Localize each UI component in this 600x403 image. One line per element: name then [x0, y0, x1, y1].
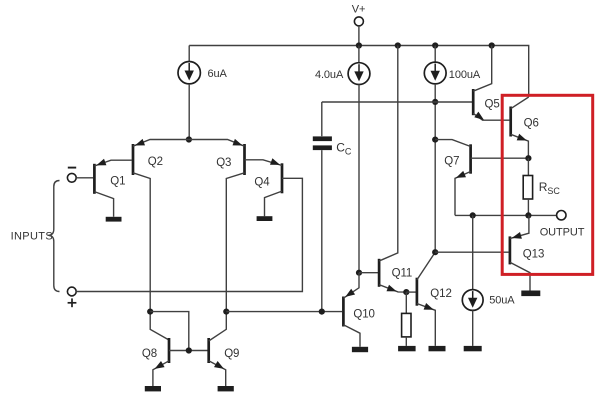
ground Q8 emitter: [145, 386, 161, 391]
junction output line / 50uA branch: [470, 212, 476, 218]
junction Cc tap on gain node: [319, 309, 325, 315]
junction rail / V+ stem: [356, 42, 362, 48]
svg-text:Q3: Q3: [216, 157, 231, 169]
junction rail / Q5 collector riser: [489, 42, 495, 48]
svg-text:Q10: Q10: [353, 308, 374, 320]
junction rail / Q11 collector riser: [395, 42, 401, 48]
wire V+ stem: [358, 26, 360, 46]
transistor Q11: [379, 46, 406, 293]
wire 6uA source to input tail node: [188, 84, 190, 140]
transistor Q4: [245, 158, 283, 216]
OUTPUT terminal: [557, 211, 566, 220]
wire 4.0uA source to node A: [358, 85, 360, 273]
current source I2 4.0uA: [348, 63, 370, 85]
wire Q11 emitter node to Q12 base: [406, 291, 416, 293]
wire Q8 collector node to mirror bases: [150, 312, 189, 351]
ground Q1 collector: [106, 217, 122, 222]
current source I1 6uA: [178, 61, 200, 83]
wire Q12 collector node to Q13 base: [435, 251, 508, 253]
svg-text:Q2: Q2: [148, 156, 163, 168]
red highlight box (output short-circuit protection): [502, 95, 593, 274]
wire output line to 50uA source: [472, 215, 474, 289]
wire rail to 4.0uA source: [358, 46, 360, 63]
wire V+ rail: [189, 46, 529, 98]
wire 100uA source to Q12 collector node: [434, 84, 436, 252]
V+ terminal: [352, 3, 366, 26]
junction node A (4.0uA / Q10 emitter / Q11 base): [356, 270, 362, 276]
wire Q5 base compensation line: [321, 102, 323, 136]
junction Q2/Q8 collector node: [147, 309, 153, 315]
transistor Q1: [94, 159, 131, 217]
junction output node (Rsc/Q13 emitter): [525, 212, 531, 218]
transistor Q7: [435, 140, 528, 216]
wire Q4 base to IN+: [76, 178, 302, 291]
svg-text:Q9: Q9: [224, 348, 239, 360]
svg-text:Q5: Q5: [485, 98, 500, 110]
ground 50uA: [464, 346, 482, 351]
svg-text:INPUTS: INPUTS: [11, 230, 53, 242]
svg-text:Q7: Q7: [444, 155, 459, 167]
svg-text:Q13: Q13: [523, 248, 544, 260]
junction Q7 collector tap: [432, 137, 438, 143]
wire node A to Q11 base: [359, 272, 378, 274]
transistor Q8: [153, 338, 208, 386]
wire resistor R1 to ground: [405, 337, 407, 346]
svg-text:Q4: Q4: [254, 176, 270, 188]
transistor Q12: [417, 252, 435, 346]
wire gain node to Q10 base: [226, 311, 342, 313]
junction Q12 collector node: [432, 249, 438, 255]
current source I4 50uA: [462, 290, 483, 311]
transistor Q2: [133, 139, 189, 312]
junction Q6 emitter / Q7 base / Rsc top: [525, 155, 531, 161]
junction Q5 base line tap: [432, 99, 438, 105]
wire Q6 emitter node to Rsc: [527, 158, 529, 175]
wire rail to 6uA source: [188, 46, 190, 62]
ground Q12 emitter: [429, 346, 446, 351]
wire rail to 100uA source: [434, 46, 436, 63]
current source I3 100uA: [424, 62, 446, 84]
wire Cc bottom to gain node: [321, 150, 323, 312]
capacitor Cc: [313, 136, 332, 150]
ground Q4 collector: [257, 216, 273, 221]
svg-text:4.0uA: 4.0uA: [315, 69, 344, 81]
transistor Q10: [343, 273, 360, 347]
wire IN- to Q1 base: [76, 177, 93, 179]
transistor Q9: [209, 312, 227, 386]
resistor R1: [402, 313, 411, 337]
wire output line: [455, 214, 557, 216]
svg-text:100uA: 100uA: [449, 69, 481, 81]
wire Q2 collector to Q8 collector: [150, 312, 168, 340]
transistor Q6: [511, 97, 529, 158]
svg-text:Q1: Q1: [110, 176, 125, 188]
junction Q11 emitter node: [403, 289, 409, 295]
svg-text:50uA: 50uA: [489, 294, 515, 306]
junction rail / 100uA branch: [432, 42, 438, 48]
ground Q9 emitter: [218, 386, 234, 391]
svg-text:Q12: Q12: [430, 288, 451, 300]
wire 50uA source to ground: [472, 310, 474, 346]
ground Q13 collector: [521, 291, 540, 297]
svg-text:Q8: Q8: [142, 348, 157, 360]
svg-text:V+: V+: [352, 3, 366, 15]
wire Rsc bottom to output node: [527, 199, 529, 215]
transistor Q13: [510, 215, 530, 290]
svg-text:OUTPUT: OUTPUT: [540, 227, 585, 239]
svg-text:6uA: 6uA: [208, 68, 228, 80]
transistor Q5: [473, 46, 509, 121]
ground Q10 collector: [352, 347, 368, 352]
resistor Rsc: [523, 176, 532, 200]
wire Q11 emitter node to resistor R1: [405, 292, 407, 313]
ground R1: [398, 346, 416, 351]
svg-text:Q6: Q6: [524, 117, 539, 129]
junction input tail node: [186, 136, 192, 142]
junction mirror base node: [186, 347, 192, 353]
svg-text:Q11: Q11: [392, 267, 413, 279]
inverting input terminal -: [67, 168, 76, 183]
inputs brace: [48, 181, 59, 292]
junction Q3/Q9 collector gain node: [223, 309, 229, 315]
transistor Q3: [189, 139, 245, 312]
non-inverting input terminal +: [67, 287, 76, 307]
